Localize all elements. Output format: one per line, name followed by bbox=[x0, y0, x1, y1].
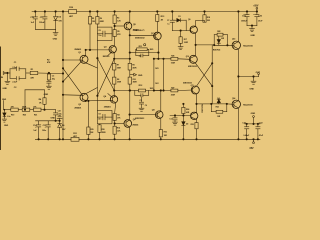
capacitor C19 1000uF (top right) bbox=[246, 12, 248, 15]
ground (input node) bbox=[46, 85, 51, 87]
svg-text:2N5401: 2N5401 bbox=[74, 48, 82, 51]
ground (top-left psu) bbox=[55, 29, 57, 32]
wire chain bottom horizontal bbox=[114, 90, 130, 92]
resistor R21 (feedback chain 3) bbox=[33, 108, 41, 111]
svg-text:2N5551: 2N5551 bbox=[132, 125, 138, 127]
svg-text:2N5401: 2N5401 bbox=[104, 105, 112, 108]
svg-text:C3: C3 bbox=[52, 75, 54, 77]
transistor Q8 VAS bottom (MJE15033) bbox=[155, 111, 163, 119]
resistor R16 (Q8 collector 10R) bbox=[160, 118, 162, 129]
wire bottom output base line bbox=[197, 103, 212, 105]
wire Q2 collector to Q4 base bbox=[86, 99, 113, 102]
wire bottom -55V rail bbox=[35, 138, 71, 140]
wire top output base line bbox=[196, 44, 215, 46]
svg-text:2N5551: 2N5551 bbox=[103, 56, 111, 58]
svg-text:R10: R10 bbox=[133, 79, 136, 81]
svg-text:1000uF: 1000uF bbox=[241, 21, 248, 23]
resistor R29a 18K (Q2 collector line to rail) bbox=[87, 101, 89, 127]
svg-text:R3: R3 bbox=[117, 17, 119, 19]
resistor R30 (4R7 top rail) bbox=[69, 10, 77, 14]
svg-text:C23: C23 bbox=[58, 110, 61, 112]
wire bias top horizontal bbox=[154, 58, 171, 60]
transistor Q10 driver top (MJE15032) bbox=[189, 55, 197, 63]
svg-text:R18: R18 bbox=[207, 17, 210, 19]
svg-text:MJE15032: MJE15032 bbox=[188, 66, 197, 68]
terminal IN bbox=[3, 72, 6, 75]
wire bottom psu top bus bbox=[36, 120, 60, 122]
resistor R7 390R (chain1 top) bbox=[113, 53, 115, 63]
wire Q3 emitter arrow stub bbox=[108, 52, 112, 56]
svg-text:R30: R30 bbox=[102, 129, 105, 131]
transistor Q13 output top (MJL21194) bbox=[232, 41, 240, 49]
svg-text:47u: 47u bbox=[98, 118, 101, 121]
diode D6 zener (bottom-left psu) bbox=[59, 121, 61, 124]
wire Q11 collector down bbox=[196, 94, 198, 104]
capacitor C7 1u (bootstrap top) bbox=[171, 12, 173, 20]
wire long left vertical bbox=[62, 12, 64, 140]
wire bias network box verticals bbox=[153, 59, 155, 91]
svg-text:-55V: -55V bbox=[249, 148, 254, 150]
capacitor C22 47uF (bottom right) bbox=[257, 124, 259, 127]
wire OUT line bbox=[238, 76, 258, 78]
ground flag (between chain2 resistors) bbox=[130, 74, 134, 76]
resistor R19 (feedback chain 1) bbox=[11, 108, 18, 111]
wire + ground (top right decoupling) bbox=[247, 25, 257, 27]
diode D7 feedback left + ground bbox=[2, 110, 7, 122]
node dots psu bottom-left bbox=[38, 139, 40, 141]
svg-text:MJE15032: MJE15032 bbox=[135, 38, 145, 40]
svg-text:C6: C6 bbox=[145, 105, 147, 107]
svg-text:GND: GND bbox=[44, 94, 49, 96]
svg-text:MJL21193: MJL21193 bbox=[243, 105, 253, 107]
resistor R3a 10K (rail to Q1 collector line) bbox=[89, 12, 91, 17]
capacitor C13 + ground (bottom bias) bbox=[174, 116, 176, 118]
wire Q4 emitter arrow stub bbox=[108, 94, 112, 98]
capacitor C16 (top-left psu) bbox=[34, 12, 36, 17]
wire Q7 emitter down bbox=[157, 40, 159, 59]
wire Q1 collector to Q3 base bbox=[86, 49, 111, 51]
wire psu top-left bottom bus bbox=[35, 28, 55, 30]
svg-text:R27: R27 bbox=[171, 87, 174, 89]
resistor R11 (feedback top 1K) + capacitor C4 parallel bbox=[130, 52, 136, 54]
resistor R3b 1.2K (rail to Q5 junction) bbox=[114, 12, 116, 16]
terminal -55V bbox=[253, 139, 255, 141]
resistor R2 (1K to feedback) bbox=[44, 90, 46, 98]
svg-text:R8: R8 bbox=[117, 79, 119, 81]
svg-text:D2: D2 bbox=[186, 124, 188, 126]
svg-text:Q13: Q13 bbox=[232, 39, 235, 41]
resistor R8 390R (chain1 bottom) bbox=[113, 77, 116, 84]
transistor Q9 predriver top bbox=[190, 26, 197, 33]
svg-text:GND: GND bbox=[50, 117, 55, 119]
transistor Q7 VAS top (MJE15032) bbox=[154, 32, 162, 40]
transistor Q4 (second stage bottom) bbox=[110, 96, 117, 103]
wire top +55V rail bbox=[32, 11, 69, 13]
capacitor C8 box (top bootstrap) bbox=[97, 27, 112, 40]
svg-text:C13: C13 bbox=[169, 119, 172, 121]
transistor Q11 driver bottom (MJE15033) bbox=[191, 86, 199, 94]
svg-text:+55V: +55V bbox=[253, 6, 259, 8]
svg-text:10u: 10u bbox=[98, 35, 101, 37]
svg-text:1u: 1u bbox=[167, 24, 169, 26]
svg-text:100uF: 100uF bbox=[39, 22, 45, 24]
svg-text:D1: D1 bbox=[178, 16, 180, 18]
svg-text:R21: R21 bbox=[34, 115, 37, 117]
ground (OUT) bbox=[253, 77, 255, 81]
transistor Q2 (2N5401 input bottom) bbox=[80, 93, 88, 101]
svg-text:GND: GND bbox=[250, 35, 255, 37]
transistor Q14 output bottom (MJL21193) bbox=[232, 100, 240, 108]
resistor R17 100R + ground (predriver base) bbox=[180, 31, 182, 37]
resistor R2 47K + capacitor C3 47p to ground bbox=[48, 73, 50, 74]
svg-text:C7: C7 bbox=[167, 20, 169, 22]
svg-text:47K: 47K bbox=[30, 77, 34, 80]
svg-text:GND: GND bbox=[249, 89, 254, 91]
svg-text:2N5401: 2N5401 bbox=[74, 107, 82, 110]
svg-text:R5: R5 bbox=[92, 18, 94, 20]
svg-text:R29: R29 bbox=[90, 129, 93, 131]
diode D1 (top bias) bbox=[172, 19, 177, 21]
wire Q9 emitter to output base line bbox=[195, 33, 197, 55]
svg-text:MJE15033: MJE15033 bbox=[135, 118, 145, 120]
wire predriver top base bbox=[172, 30, 190, 32]
svg-text:GND: GND bbox=[138, 75, 143, 77]
svg-text:R17: R17 bbox=[184, 39, 187, 41]
node dots psu top-left bbox=[35, 11, 37, 13]
svg-text:1K5: 1K5 bbox=[155, 68, 158, 70]
resistor R29b 430R (bootstrap box to rail) bbox=[99, 124, 101, 125]
capacitor C20 47uF (top right) bbox=[256, 12, 258, 15]
transistor Q5 current source top (2N5551) bbox=[124, 22, 132, 30]
resistor R13 2K (VAS top collector) bbox=[156, 12, 158, 15]
svg-text:R25: R25 bbox=[191, 124, 194, 126]
wire X1 cross-coupled input bridge bbox=[63, 59, 82, 61]
svg-text:Q11: Q11 bbox=[191, 85, 194, 87]
svg-text:R26: R26 bbox=[171, 55, 174, 57]
wire bottom right decoupling top bus bbox=[245, 123, 260, 125]
resistor R24 + diode D2 (bottom bias chain) bbox=[182, 104, 184, 107]
resistor R26 100R (to top driver base) bbox=[171, 57, 178, 60]
svg-text:Q10: Q10 bbox=[186, 56, 189, 58]
node small circle mark bbox=[144, 44, 146, 46]
svg-text:R19: R19 bbox=[11, 115, 14, 117]
resistor R31 (4R7 bottom rail) bbox=[71, 137, 79, 141]
capacitor C6 + ground (bottom divider) bbox=[141, 97, 143, 102]
svg-text:C8: C8 bbox=[98, 30, 100, 32]
wire Q2 emitter diagonal bbox=[86, 88, 98, 94]
svg-text:R6: R6 bbox=[100, 18, 102, 20]
resistor R5 47R (above Q3) bbox=[113, 37, 115, 46]
svg-text:Q9: Q9 bbox=[188, 19, 190, 21]
svg-text:R2: R2 bbox=[47, 59, 49, 61]
capacitor C21 0.68uF (bottom right) bbox=[246, 124, 248, 127]
wire right spine vertical bbox=[211, 45, 213, 104]
resistor R9 390R (chain2 top) bbox=[129, 35, 131, 63]
svg-text:R20: R20 bbox=[23, 115, 26, 117]
transistor Q6 current source bottom (2N5551) bbox=[124, 120, 132, 128]
capacitor C17 (top-left psu) bbox=[44, 12, 46, 17]
diode D5 zener 15V (top-left psu) bbox=[55, 12, 57, 17]
wire X2 cross diagonals (second stage) bbox=[97, 58, 114, 90]
ground (input) bbox=[7, 72, 9, 74]
resistor R10 390R (chain2 bottom) bbox=[128, 77, 131, 84]
wire Q6 collector to Q8 base bbox=[129, 115, 131, 120]
resistor R12 (feedback bottom 1K5) + capacitor C5 parallel bbox=[130, 90, 139, 92]
wire Q8 emitter up bbox=[160, 91, 162, 112]
svg-text:0.68uF: 0.68uF bbox=[243, 135, 250, 137]
capacitor C9 box (bottom bootstrap) bbox=[97, 110, 112, 123]
svg-text:R5: R5 bbox=[117, 31, 119, 33]
ground terminal (feedback chain left) bbox=[3, 101, 5, 110]
resistor R22 10R with diode D3 (top output base) bbox=[213, 35, 215, 45]
terminal GND (bottom right) bbox=[253, 116, 255, 118]
svg-text:R16: R16 bbox=[164, 132, 167, 134]
svg-text:MJL21194: MJL21194 bbox=[243, 44, 253, 47]
svg-text:R22: R22 bbox=[217, 31, 220, 33]
svg-text:0.3u: 0.3u bbox=[7, 116, 10, 118]
node input junction bbox=[48, 72, 50, 74]
wire chain top horizontal bbox=[114, 58, 130, 60]
terminal +55V bbox=[256, 7, 258, 9]
svg-text:MJE15032: MJE15032 bbox=[201, 104, 203, 112]
svg-text:1K2: 1K2 bbox=[155, 83, 158, 85]
transistor Q12 predriver bottom bbox=[191, 112, 198, 119]
svg-text:2K2: 2K2 bbox=[207, 20, 210, 22]
svg-text:R23: R23 bbox=[216, 106, 219, 108]
wire X2 vertical (bootstrap spine) bbox=[96, 41, 98, 111]
capacitor C14 (bottom-left psu) bbox=[38, 121, 40, 125]
wire feedback riser bbox=[25, 89, 45, 91]
wire output emitters join bbox=[237, 49, 239, 101]
wire predriver bottom base line bbox=[170, 115, 191, 117]
wire Q1 emitter diagonal bbox=[86, 63, 98, 68]
svg-text:GND: GND bbox=[2, 88, 7, 90]
svg-text:2SA1930-Y1: 2SA1930-Y1 bbox=[133, 29, 145, 32]
capacitor C15 (bottom-left psu) bbox=[47, 121, 49, 125]
resistor R14b 1.2K (Q6 junction to rail) bbox=[114, 124, 116, 127]
resistor R20 (feedback chain 2) bbox=[22, 108, 30, 111]
svg-text:R9: R9 bbox=[132, 65, 134, 67]
svg-text:0.33u: 0.33u bbox=[58, 114, 62, 116]
transistor Q1 (2N5401 input top) bbox=[80, 55, 88, 63]
ground (bottom-left psu, above) bbox=[59, 119, 61, 121]
resistor R4a 430R (rail to bootstrap box) bbox=[96, 12, 98, 17]
svg-text:GND: GND bbox=[4, 125, 9, 127]
resistor R18 2K2 (Q9 collector to rail) bbox=[195, 21, 197, 27]
wire bias bottom horizontal bbox=[154, 90, 171, 92]
svg-text:R28 0R33: R28 0R33 bbox=[213, 50, 220, 52]
svg-text:GND: GND bbox=[251, 113, 256, 115]
resistor R6 47R (below Q4) bbox=[115, 103, 116, 114]
transistor Q3 (second stage top) bbox=[109, 46, 116, 53]
resistor R27 100R (to bottom driver base) bbox=[171, 89, 178, 92]
border left edge bbox=[0, 47, 1, 150]
svg-text:R7: R7 bbox=[117, 65, 119, 67]
resistor R1 (47K input series) bbox=[26, 72, 30, 74]
svg-text:GND: GND bbox=[53, 39, 58, 41]
resistor R23 10R with diode D4 (bottom output base) bbox=[211, 103, 227, 105]
wire Q5 emitter to Q7 base bbox=[129, 30, 131, 36]
svg-text:C9: C9 bbox=[98, 114, 100, 116]
svg-text:GND: GND bbox=[2, 99, 7, 101]
wire X3 cross diagonals (drivers to outputs) bbox=[196, 63, 213, 86]
capacitor C1 C2 input pair branches bbox=[9, 69, 11, 79]
